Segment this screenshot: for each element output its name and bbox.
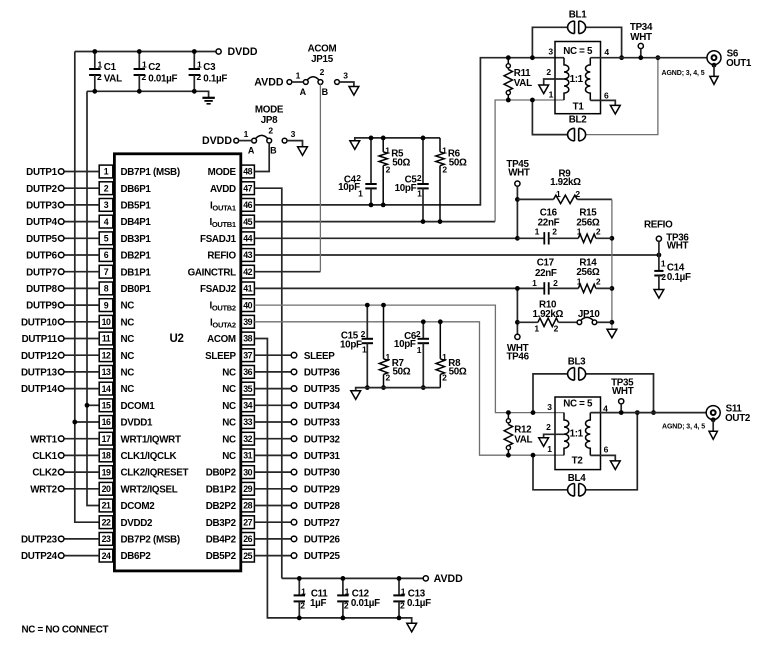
svg-text:26: 26 <box>243 534 252 544</box>
wire IOUTB1 pin45 to T1 pin1 <box>254 221 495 223</box>
U2 pin 45 box <box>241 215 255 228</box>
ground S6 shield <box>710 76 718 84</box>
svg-text:9: 9 <box>104 300 109 310</box>
svg-text:AGND; 3, 4, 5: AGND; 3, 4, 5 <box>662 424 705 431</box>
U2 pin 23 box <box>99 533 113 546</box>
svg-text:DB5P2: DB5P2 <box>206 551 237 562</box>
svg-text:DUTP1: DUTP1 <box>26 167 57 178</box>
wire pin 31 to DUTP31 terminal <box>254 454 291 456</box>
svg-text:2: 2 <box>575 189 580 199</box>
ground S11 shield <box>709 431 717 439</box>
svg-text:DVDD: DVDD <box>228 46 258 58</box>
svg-text:DB7P2 (MSB): DB7P2 (MSB) <box>121 535 180 546</box>
svg-text:GAINCTRL: GAINCTRL <box>188 267 237 278</box>
svg-text:21: 21 <box>102 501 111 511</box>
svg-text:DB6P2: DB6P2 <box>121 551 152 562</box>
svg-text:B: B <box>270 145 277 155</box>
svg-text:VAL: VAL <box>104 74 122 85</box>
svg-text:1: 1 <box>532 278 537 288</box>
wire JP15 pin3 to ground <box>339 82 354 87</box>
svg-text:0.01µF: 0.01µF <box>351 598 380 609</box>
ground T2 pin2 <box>539 438 549 447</box>
svg-text:REFIO: REFIO <box>644 220 673 231</box>
node DUTP14 terminal <box>58 386 64 392</box>
node DUTP12 terminal <box>58 352 64 358</box>
svg-text:18: 18 <box>102 451 111 461</box>
U2 pin 42 box <box>241 265 255 278</box>
node SLEEP terminal <box>291 352 297 358</box>
node DUTP23 terminal <box>58 536 64 542</box>
svg-text:JP8: JP8 <box>261 115 278 126</box>
wire AVDD bottom rail <box>282 577 423 579</box>
svg-text:1: 1 <box>362 344 367 354</box>
svg-text:1:1: 1:1 <box>570 429 584 440</box>
U2 pin 16 box <box>99 416 113 429</box>
svg-text:T1: T1 <box>573 102 585 113</box>
svg-text:4: 4 <box>604 47 609 57</box>
U2 pin 5 box <box>99 232 113 245</box>
node DUTP25 terminal <box>291 553 297 559</box>
U2 pin 13 box <box>99 366 113 379</box>
svg-text:2: 2 <box>268 126 273 136</box>
U2 pin 10 box <box>99 315 113 328</box>
wire FSADJ2 down to TP46 <box>516 288 518 334</box>
node DUTP32 terminal <box>291 436 297 442</box>
svg-text:CLK1: CLK1 <box>32 451 57 462</box>
svg-text:JP15: JP15 <box>311 54 334 65</box>
svg-text:NC: NC <box>121 384 135 395</box>
svg-text:BL3: BL3 <box>568 357 586 368</box>
svg-text:ACOM: ACOM <box>308 44 337 55</box>
svg-text:A: A <box>300 87 307 97</box>
svg-text:44: 44 <box>243 234 252 244</box>
svg-text:BL2: BL2 <box>569 115 587 126</box>
ground earth below C3 <box>202 97 214 99</box>
svg-text:3: 3 <box>291 129 296 139</box>
node DUTP29 terminal <box>291 486 297 492</box>
wire REFIO pin43 to TP36/C14 <box>254 254 659 256</box>
svg-text:NC: NC <box>121 317 135 328</box>
capacitor C2 <box>138 52 140 70</box>
capacitor C11 1uF <box>298 578 300 595</box>
transformer T2 box <box>555 397 601 470</box>
U2 pin 12 box <box>99 349 113 362</box>
wire DUTP13 to pin 13 <box>64 371 99 373</box>
ground C14 <box>654 290 664 299</box>
op-amp U2 DAC IC body <box>114 154 240 571</box>
svg-text:12: 12 <box>102 350 111 360</box>
svg-text:42: 42 <box>243 267 252 277</box>
svg-text:2: 2 <box>442 373 447 383</box>
wire DUTP2 to pin 2 <box>64 187 99 189</box>
test point TP46 <box>515 334 520 339</box>
svg-text:CLK2/IQRESET: CLK2/IQRESET <box>121 468 189 479</box>
svg-text:MODE: MODE <box>255 105 284 116</box>
svg-text:34: 34 <box>243 401 252 411</box>
svg-text:7: 7 <box>104 267 109 277</box>
node DUTP34 terminal <box>291 403 297 409</box>
svg-text:1: 1 <box>417 345 422 355</box>
U2 pin 44 box <box>241 232 255 245</box>
node DUTP10 terminal <box>58 319 64 325</box>
svg-text:3: 3 <box>547 402 552 412</box>
node DUTP9 terminal <box>58 302 64 308</box>
wire pin 28 to DUTP28 terminal <box>254 505 291 507</box>
ground bottom rail <box>407 623 417 632</box>
capacitor C5 <box>422 138 424 184</box>
svg-text:14: 14 <box>102 384 111 394</box>
capacitor C15 10pF <box>366 305 368 339</box>
svg-text:4: 4 <box>104 217 109 227</box>
svg-text:29: 29 <box>243 484 252 494</box>
U2 pin 14 box <box>99 382 113 395</box>
svg-text:50Ω: 50Ω <box>449 367 467 378</box>
svg-text:DB6P1: DB6P1 <box>121 184 152 195</box>
svg-text:46: 46 <box>243 200 252 210</box>
svg-text:1: 1 <box>358 189 363 199</box>
svg-text:DUTP30: DUTP30 <box>304 468 341 479</box>
svg-text:WHT: WHT <box>667 241 689 252</box>
svg-text:22: 22 <box>102 517 111 527</box>
svg-text:48: 48 <box>243 167 252 177</box>
svg-text:0.01µF: 0.01µF <box>148 74 177 85</box>
node DUTP7 terminal <box>58 269 64 275</box>
svg-text:MODE: MODE <box>208 167 237 178</box>
U2 pin 19 box <box>99 466 113 479</box>
svg-text:0.1µF: 0.1µF <box>407 598 431 609</box>
wire DUTP7 to pin 7 <box>64 271 99 273</box>
svg-text:DUTP25: DUTP25 <box>304 551 341 562</box>
svg-text:1: 1 <box>345 587 350 597</box>
svg-text:1: 1 <box>385 145 390 155</box>
ground T1 pin2 <box>539 85 549 94</box>
svg-text:40: 40 <box>243 300 252 310</box>
svg-text:2: 2 <box>661 272 666 282</box>
ground JP8 <box>298 147 308 156</box>
svg-text:DUTP2: DUTP2 <box>26 184 57 195</box>
svg-text:WHT: WHT <box>630 32 652 43</box>
test point TP36 <box>656 236 661 241</box>
U2 pin 25 box <box>241 549 255 562</box>
svg-text:AGND; 3, 4, 5: AGND; 3, 4, 5 <box>662 70 705 77</box>
node DUTP5 terminal <box>58 236 64 242</box>
svg-text:28: 28 <box>243 501 252 511</box>
svg-text:DUTP34: DUTP34 <box>304 401 341 412</box>
U2 pin 29 box <box>241 482 255 495</box>
svg-text:DB3P1: DB3P1 <box>121 234 152 245</box>
svg-text:2: 2 <box>141 72 146 82</box>
svg-text:1: 1 <box>549 89 554 99</box>
svg-text:DUTP28: DUTP28 <box>304 501 341 512</box>
transformer T2 secondary winding <box>586 413 591 456</box>
wire pin 32 to DUTP32 terminal <box>254 438 291 440</box>
svg-text:2: 2 <box>552 227 557 237</box>
wire DUTP9 to pin 9 <box>64 304 99 306</box>
svg-text:1: 1 <box>197 60 202 70</box>
U2 pin 9 box <box>99 299 113 312</box>
ground rail R7 <box>351 391 361 400</box>
wire pin 36 to DUTP36 terminal <box>254 371 291 373</box>
transformer T1 primary winding <box>564 58 569 100</box>
svg-text:NC: NC <box>222 434 236 445</box>
wire pin 26 to DUTP26 terminal <box>254 538 291 540</box>
svg-text:17: 17 <box>102 434 111 444</box>
svg-text:30: 30 <box>243 467 252 477</box>
svg-text:DCOM1: DCOM1 <box>121 401 156 412</box>
U2 pin 6 box <box>99 249 113 262</box>
svg-text:39: 39 <box>243 317 252 327</box>
svg-text:6: 6 <box>604 444 609 454</box>
svg-text:2: 2 <box>554 324 559 334</box>
svg-text:SLEEP: SLEEP <box>205 351 236 362</box>
svg-text:DUTP36: DUTP36 <box>304 368 341 379</box>
svg-text:B: B <box>322 87 329 97</box>
wire DUTP6 to pin 6 <box>64 254 99 256</box>
node DUTP13 terminal <box>58 369 64 375</box>
svg-text:NC: NC <box>121 351 135 362</box>
svg-text:OUT1: OUT1 <box>726 58 752 69</box>
U2 pin 34 box <box>241 399 255 412</box>
svg-text:DB1P2: DB1P2 <box>206 484 237 495</box>
svg-text:45: 45 <box>243 217 252 227</box>
node DUTP4 terminal <box>58 219 64 225</box>
U2 pin 3 box <box>99 199 113 212</box>
wire GAINCTRL pin42 up to JP15 <box>254 271 320 273</box>
wire pin 30 to DUTP30 terminal <box>254 471 291 473</box>
svg-text:1: 1 <box>577 276 582 286</box>
node DUTP3 terminal <box>58 202 64 208</box>
svg-text:AVDD: AVDD <box>254 77 284 89</box>
wire pin 34 to DUTP34 terminal <box>254 404 291 406</box>
svg-text:2: 2 <box>546 422 551 432</box>
node DVDD terminal <box>216 49 221 54</box>
svg-text:DUTP24: DUTP24 <box>21 551 58 562</box>
svg-text:NC: NC <box>222 451 236 462</box>
svg-text:10pF: 10pF <box>395 183 417 194</box>
svg-text:2: 2 <box>104 183 109 193</box>
U2 pin 28 box <box>241 499 255 512</box>
svg-text:3: 3 <box>343 70 348 80</box>
svg-text:16: 16 <box>102 417 111 427</box>
wire T2 output line to S11 <box>590 412 706 414</box>
resistor R7 50 <box>383 305 385 359</box>
svg-text:11: 11 <box>102 334 111 344</box>
svg-text:NC = 5: NC = 5 <box>563 46 593 57</box>
wire DCOM1 pin 15 tap <box>87 404 99 406</box>
svg-text:1: 1 <box>547 444 552 454</box>
svg-text:NC: NC <box>121 301 135 312</box>
svg-text:DUTP33: DUTP33 <box>304 418 341 429</box>
svg-text:6: 6 <box>604 90 609 100</box>
svg-text:NC: NC <box>121 368 135 379</box>
wire termination ground rail bottom <box>356 388 441 391</box>
U2 pin 1 box <box>99 165 113 178</box>
svg-text:2: 2 <box>417 173 422 183</box>
U2 pin 7 box <box>99 265 113 278</box>
svg-text:6: 6 <box>104 250 109 260</box>
svg-text:20: 20 <box>102 484 111 494</box>
wire T1 pin2 center tap to ground <box>544 79 564 85</box>
node DUTP8 terminal <box>58 286 64 292</box>
svg-text:A: A <box>248 145 255 155</box>
svg-text:DUTP14: DUTP14 <box>21 384 58 395</box>
svg-text:AVDD: AVDD <box>434 573 464 585</box>
wire T1 output line to S6 <box>590 57 707 59</box>
wire DUTP4 to pin 4 <box>64 221 99 223</box>
U2 pin 37 box <box>241 349 255 362</box>
ground T1 pin6 <box>610 105 620 114</box>
svg-text:3: 3 <box>104 200 109 210</box>
svg-text:37: 37 <box>243 350 252 360</box>
svg-text:DUTP6: DUTP6 <box>26 251 57 262</box>
U2 pin 8 box <box>99 282 113 295</box>
wire WRT1 to pin 17 <box>64 438 99 440</box>
svg-text:2: 2 <box>546 67 551 77</box>
svg-text:WRT2: WRT2 <box>30 484 57 495</box>
svg-text:DB7P1 (MSB): DB7P1 (MSB) <box>121 167 180 178</box>
U2 pin 4 box <box>99 215 113 228</box>
transformer T1 secondary winding <box>586 58 591 101</box>
U2 pin 39 box <box>241 315 255 328</box>
svg-text:BL1: BL1 <box>569 9 587 20</box>
node DUTP6 terminal <box>58 252 64 258</box>
wire ACOM pin38 down to ground rail <box>254 339 411 624</box>
svg-text:2: 2 <box>361 329 366 339</box>
svg-text:OUT2: OUT2 <box>725 413 751 424</box>
U2 pin 2 box <box>99 182 113 195</box>
wire T1 pin6 to ground <box>590 100 615 105</box>
svg-text:1: 1 <box>417 189 422 199</box>
svg-text:41: 41 <box>243 284 252 294</box>
svg-text:NC: NC <box>222 384 236 395</box>
svg-text:NC: NC <box>222 401 236 412</box>
svg-text:50Ω: 50Ω <box>449 157 467 168</box>
svg-text:DUTP11: DUTP11 <box>22 334 58 345</box>
svg-text:C3: C3 <box>203 62 216 73</box>
U2 pin 48 box <box>241 165 255 178</box>
svg-text:15: 15 <box>102 401 111 411</box>
svg-text:DVDD: DVDD <box>202 135 232 147</box>
svg-text:DUTP26: DUTP26 <box>304 535 341 546</box>
svg-text:NC: NC <box>222 418 236 429</box>
svg-text:DB2P1: DB2P1 <box>121 251 152 262</box>
svg-text:FSADJ1: FSADJ1 <box>200 234 237 245</box>
svg-text:1: 1 <box>661 259 666 269</box>
connector S6 OUT1 <box>707 51 721 65</box>
svg-text:0.1µF: 0.1µF <box>667 272 691 283</box>
wire CLK1 to pin 18 <box>64 454 99 456</box>
svg-text:1: 1 <box>442 352 447 362</box>
node WRT2 terminal <box>58 486 64 492</box>
resistor R12 VAL <box>506 410 511 415</box>
svg-text:C17: C17 <box>537 258 555 269</box>
svg-text:1µF: 1µF <box>310 598 326 609</box>
svg-text:1: 1 <box>104 167 109 177</box>
wire T2 pin2 center tap to ground <box>544 434 564 438</box>
svg-text:1: 1 <box>142 60 147 70</box>
svg-text:NC = 5: NC = 5 <box>563 399 593 410</box>
svg-text:1: 1 <box>556 189 561 199</box>
ground T2 pin6 <box>610 461 620 470</box>
U2 pin 15 box <box>99 399 113 412</box>
svg-text:DVDD1: DVDD1 <box>121 418 154 429</box>
U2 pin 30 box <box>241 466 255 479</box>
svg-text:35: 35 <box>243 384 252 394</box>
svg-text:1: 1 <box>244 129 249 139</box>
svg-text:23: 23 <box>102 534 111 544</box>
svg-text:WHT: WHT <box>612 386 634 397</box>
wire FSADJ1 pin44 to C16 <box>254 237 517 239</box>
svg-text:FSADJ2: FSADJ2 <box>200 284 237 295</box>
U2 pin 26 box <box>241 533 255 546</box>
U2 pin 35 box <box>241 382 255 395</box>
node CLK1 terminal <box>58 453 64 459</box>
wire DUTP11 to pin 11 <box>64 338 99 340</box>
wire CLK2 to pin 19 <box>64 471 99 473</box>
resistor R6 <box>439 138 441 152</box>
svg-text:1: 1 <box>401 587 406 597</box>
node DUTP26 terminal <box>291 536 297 542</box>
svg-text:SLEEP: SLEEP <box>304 351 335 362</box>
svg-text:2: 2 <box>442 164 447 174</box>
wire mid ground bus vertical <box>611 199 613 329</box>
wire MODE pin48 to JP8 <box>254 143 269 172</box>
svg-text:DUTP10: DUTP10 <box>21 317 58 328</box>
wire DUTP24 to pin 24 <box>64 555 99 557</box>
svg-text:DUTP7: DUTP7 <box>26 267 57 278</box>
node DUTP30 terminal <box>291 469 297 475</box>
svg-text:2: 2 <box>97 72 102 82</box>
svg-text:VAL: VAL <box>514 78 532 89</box>
resistor R11 VAL <box>506 55 511 60</box>
wire pin 27 to DUTP27 terminal <box>254 521 291 523</box>
svg-text:2: 2 <box>344 601 349 611</box>
capacitor C13 0.1uF <box>398 578 400 595</box>
U2 pin 11 box <box>99 332 113 345</box>
svg-text:38: 38 <box>243 334 252 344</box>
svg-text:DUTP35: DUTP35 <box>304 384 341 395</box>
U2 pin 17 box <box>99 432 113 445</box>
wire TP45 down to FSADJ1 <box>516 186 518 238</box>
svg-text:NC: NC <box>222 368 236 379</box>
wire DVDD bus down to pin 22 <box>75 52 99 523</box>
svg-text:5: 5 <box>104 234 109 244</box>
svg-text:10pF: 10pF <box>394 339 416 350</box>
svg-text:1: 1 <box>534 324 539 334</box>
svg-text:DB0P1: DB0P1 <box>121 284 152 295</box>
svg-text:27: 27 <box>243 517 252 527</box>
svg-text:WRT1: WRT1 <box>30 434 57 445</box>
svg-text:WRT1/IQWRT: WRT1/IQWRT <box>121 434 181 445</box>
svg-text:DUTP23: DUTP23 <box>21 535 58 546</box>
transformer T2 primary winding <box>564 413 569 456</box>
svg-text:24: 24 <box>102 551 111 561</box>
node DUTP24 terminal <box>58 553 64 559</box>
svg-text:32: 32 <box>243 434 252 444</box>
svg-text:DUTP8: DUTP8 <box>26 284 57 295</box>
wire IOUTA2 pin39 to T2 pin1 <box>254 322 564 455</box>
node DUTP31 terminal <box>291 453 297 459</box>
svg-text:1: 1 <box>385 352 390 362</box>
wire pin 35 to DUTP35 terminal <box>254 388 291 390</box>
svg-text:DUTP27: DUTP27 <box>304 518 341 529</box>
capacitor C3 <box>193 52 195 70</box>
svg-text:WRT2/IQSEL: WRT2/IQSEL <box>121 484 178 495</box>
wire DUTP23 to pin 23 <box>64 538 99 540</box>
U2 pin 40 box <box>241 299 255 312</box>
svg-text:2: 2 <box>596 227 601 237</box>
svg-text:10pF: 10pF <box>340 339 362 350</box>
